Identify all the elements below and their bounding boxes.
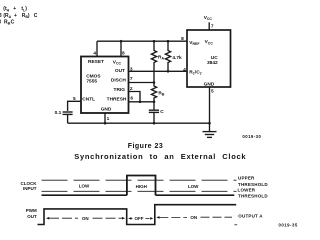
svg-text:4: 4 (183, 67, 186, 73)
resistor RB (151, 83, 164, 102)
pin number 6 and wire: THRESH to RB/C node (129, 95, 155, 102)
svg-text:THRESHOLD: THRESHOLD (238, 193, 268, 198)
svg-text:0.1: 0.1 (55, 110, 62, 116)
annotation: ON interval 1 (46, 216, 125, 221)
svg-text:CMOS: CMOS (86, 73, 101, 79)
svg-text:OUT: OUT (27, 214, 37, 219)
controller U2: UC3842 body (187, 30, 231, 88)
figure code 0019-35 (279, 223, 298, 228)
pwm waveform: output A (38, 205, 237, 225)
svg-text:0019-35: 0019-35 (279, 223, 298, 228)
wire: ground bottom rail (68, 122, 210, 124)
node: junction dot UC3842 GND on bottom rail (208, 122, 211, 125)
resistor RA (151, 40, 164, 83)
pin number 5 and wire: UC3842 GND riser (210, 87, 215, 123)
svg-text:OFF: OFF (135, 216, 144, 221)
svg-text:LOWER: LOWER (238, 188, 256, 193)
svg-text:7: 7 (211, 23, 214, 29)
power VCC: pin 7 riser and label (204, 15, 214, 30)
pin number 8 (7555 VCC) (122, 51, 125, 57)
svg-text:INPUT: INPUT (23, 186, 37, 191)
pin number 5 and wire: CNTL to bypass cap (68, 96, 81, 111)
figure code 0019-30 (242, 134, 261, 139)
wire: pin 8 riser to top rail (120, 41, 122, 56)
svg-text:C: C (160, 109, 164, 115)
caption: Synchronization to an External Clock (74, 152, 246, 161)
svg-text:UC: UC (211, 55, 218, 61)
svg-text:Synchronization to an External: Synchronization to an External Clock (74, 152, 246, 161)
svg-text:LOW: LOW (188, 184, 199, 189)
svg-text:ON: ON (190, 215, 197, 220)
label: LOW (right) (188, 184, 199, 189)
svg-text:7: 7 (130, 76, 133, 82)
label: UPPER THRESHOLD (238, 176, 268, 187)
pin number 4 (7555 RESET) (93, 51, 96, 57)
label: HIGH (136, 184, 147, 189)
svg-text:THRESH: THRESH (107, 96, 127, 102)
formula line 3: 3 RBC (cut at left edge) (0, 19, 15, 25)
pin number 8 (UC3842 VREF) (181, 36, 184, 42)
svg-text:5: 5 (211, 88, 214, 94)
mark: low reference dash under OUTPUT A (234, 224, 237, 226)
svg-text:OUT: OUT (115, 68, 125, 74)
capacitor 0.1 (CNTL bypass) (55, 110, 73, 123)
annotation: OFF interval (128, 216, 153, 221)
node: junction dot THRESH / RB / C (153, 101, 156, 104)
formula line 1: (tH + tL) (3, 6, 27, 12)
svg-text:6: 6 (130, 95, 133, 101)
label: LOW (left) (79, 183, 90, 188)
label: OUTPUT A (238, 214, 263, 219)
resistor 4.7k (165, 40, 182, 73)
formula line 2: 3 (RA + RB) C (cut at left edge) (0, 13, 38, 19)
pin number 2 and wire: TRIG elbow down to THRESH line (129, 86, 141, 102)
label: PWM OUT (26, 208, 37, 219)
pin number 3 and wire: OUT to RT/CT (129, 66, 188, 72)
svg-text:GND: GND (101, 107, 112, 113)
caption: Figure 23 (128, 143, 164, 150)
annotation: ON interval 2 (156, 215, 232, 220)
svg-text:Figure 23: Figure 23 (128, 143, 164, 150)
node: junction dot pin 8 riser on rail (120, 40, 123, 43)
svg-text:0019-30: 0019-30 (242, 134, 261, 139)
svg-text:3842: 3842 (207, 60, 218, 66)
svg-text:UPPER: UPPER (238, 176, 255, 181)
svg-text:GND: GND (204, 82, 215, 88)
svg-text:8: 8 (181, 36, 184, 42)
pin number 4 (UC3842 RT/CT) (183, 67, 186, 73)
svg-text:7555: 7555 (86, 79, 97, 85)
svg-text:PWM: PWM (26, 208, 37, 213)
clock waveform: low level and sync pulse (42, 176, 235, 196)
pin number 7 and wire: DISCH to RA/RB node (129, 76, 155, 83)
node: junction dot C on bottom rail (153, 122, 156, 125)
pin number 1 and wire: 7555 GND riser (105, 113, 110, 123)
node: junction dot 7555 GND on bottom rail (104, 122, 107, 125)
clock waveform: lower threshold dashed line (42, 190, 237, 192)
svg-text:ON: ON (82, 216, 89, 221)
svg-text:LOW: LOW (79, 183, 90, 188)
svg-text:TRIG: TRIG (114, 87, 126, 93)
svg-text:DISCH: DISCH (111, 78, 126, 84)
node: junction dot DISCH / RA / RB (153, 81, 156, 84)
timer U1: CMOS 7555 body (81, 57, 129, 114)
wire: VREF top rail (97, 40, 187, 42)
ground symbol (203, 123, 217, 137)
svg-text:4.7k: 4.7k (172, 55, 182, 61)
svg-text:HIGH: HIGH (136, 184, 147, 189)
svg-text:THRESHOLD: THRESHOLD (238, 182, 268, 187)
label: LOWER THRESHOLD (238, 188, 269, 199)
svg-text:RESET: RESET (88, 59, 104, 65)
capacitor C (timing) (149, 102, 165, 123)
svg-text:1: 1 (107, 116, 110, 122)
wire: pin 4 riser to top rail (96, 41, 98, 56)
clock waveform: upper threshold dashed line (42, 179, 237, 181)
svg-text:CNTL: CNTL (82, 96, 95, 102)
label: CLOCK INPUT (21, 181, 38, 191)
svg-text:OUTPUT A: OUTPUT A (238, 214, 263, 219)
node: junction dot TRIG joins THRESH (139, 101, 142, 104)
